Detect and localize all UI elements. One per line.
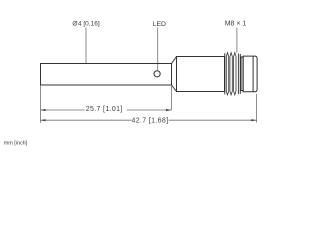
housing barrel M8 body xyxy=(177,57,225,92)
extension line tube end xyxy=(171,85,173,110)
svg-text:Ø 4 [0.16]: Ø 4 [0.16] xyxy=(72,20,99,27)
thread crest 3 xyxy=(234,53,236,95)
thread crest 4 line xyxy=(237,54,239,95)
svg-text:LED: LED xyxy=(153,21,166,28)
thread section left face xyxy=(224,53,226,94)
svg-text:25.7 [1.01]: 25.7 [1.01] xyxy=(86,106,123,113)
sensor barrel tube Ø4 xyxy=(41,64,172,86)
dimension line 42.7 right segment xyxy=(169,119,257,121)
arrowhead 42.7 right xyxy=(251,119,256,121)
arrowhead 25.7 right xyxy=(166,109,171,111)
LED window circle xyxy=(154,71,160,77)
svg-text:mm [inch]: mm [inch] xyxy=(4,141,28,147)
dimension line 42.7 left segment xyxy=(41,119,132,121)
chamfer top xyxy=(172,57,177,64)
thread crest 1 xyxy=(226,53,228,95)
svg-text:42.7 [1.68]: 42.7 [1.68] xyxy=(132,117,169,124)
connector end face line xyxy=(252,56,254,92)
arrowhead 42.7 left xyxy=(40,119,45,121)
arrowhead 25.7 left xyxy=(40,109,45,111)
dimension line 25.7 right segment xyxy=(127,109,172,111)
extension line left xyxy=(40,85,42,123)
chamfer bottom xyxy=(172,85,177,92)
svg-text:M8 × 1: M8 × 1 xyxy=(225,21,247,28)
dimension line 25.7 left segment xyxy=(41,109,85,111)
tube end face xyxy=(171,64,173,86)
connector ring xyxy=(241,57,243,91)
thread end face xyxy=(239,54,241,94)
extension line right xyxy=(256,94,258,123)
thread crest 2 xyxy=(230,53,232,95)
connector cap body xyxy=(243,56,257,92)
leader line Ø4 xyxy=(85,28,87,64)
leader line LED xyxy=(157,28,159,71)
leader line M8 xyxy=(236,28,238,53)
